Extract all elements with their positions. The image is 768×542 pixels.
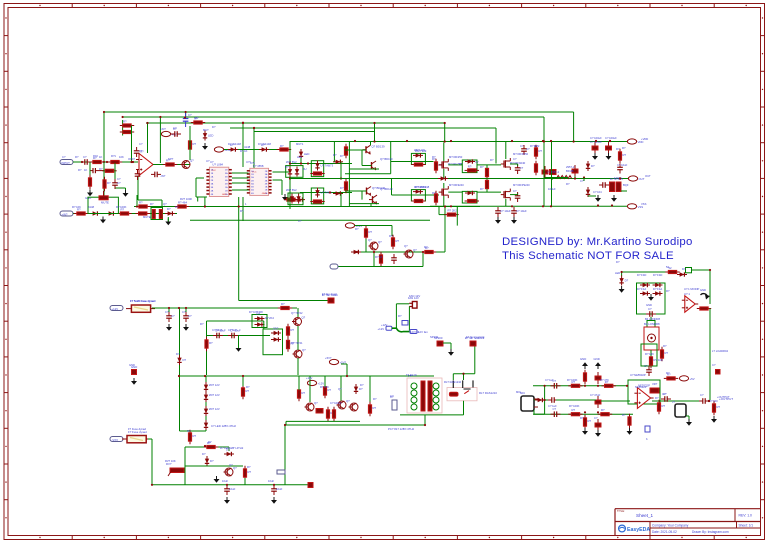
svg-text:Q?: Q?	[413, 248, 417, 252]
wire gate link m1	[438, 164, 440, 166]
mute block M1	[151, 208, 163, 220]
wire smps v298	[298, 376, 300, 390]
box loop opamp	[628, 380, 660, 404]
vbe box lower	[311, 188, 323, 204]
resistor R3	[88, 175, 91, 189]
resistor R15	[434, 159, 442, 173]
resistor R38 smps	[368, 402, 376, 416]
wire mid row right2	[601, 400, 630, 402]
wire below ic h3	[190, 219, 430, 221]
diode D27 snub	[465, 159, 475, 163]
svg-text:D? F4D: D? F4D	[653, 273, 662, 277]
svg-text:R?1: R?1	[111, 154, 116, 158]
capacitor CE2	[606, 142, 612, 154]
wire c9 stub	[574, 176, 576, 179]
wire q34 ladder2	[362, 165, 372, 167]
svg-text:WR? kit9: WR? kit9	[414, 148, 425, 152]
node input junction A	[103, 161, 105, 163]
wire v334	[333, 142, 335, 162]
svg-text:EasyEDA: EasyEDA	[627, 527, 650, 533]
svg-text:C?: C?	[644, 364, 648, 368]
resistor R9 rail1	[136, 201, 150, 209]
zener ZD6	[204, 392, 208, 402]
resistor R64 mid	[102, 169, 116, 172]
svg-text:LED: LED	[297, 155, 302, 159]
capacitor C32 below opamp	[135, 170, 141, 180]
svg-text:R?: R?	[717, 405, 721, 409]
svg-text:Q?: Q?	[163, 202, 167, 206]
snubber box lower	[411, 190, 425, 201]
flag fan Asato	[322, 293, 338, 303]
node input junction B	[130, 161, 132, 163]
resistor R20 gate	[485, 177, 488, 191]
wire c7 up	[517, 164, 519, 166]
transistor Q13 sub	[292, 316, 306, 326]
svg-text:C? 1uF: C? 1uF	[228, 328, 237, 332]
net GND flag mid	[214, 147, 232, 152]
capacitor C4 top	[171, 127, 181, 137]
capacitor C20 smps blue	[390, 395, 397, 410]
diode LED1	[203, 131, 214, 141]
svg-text:C? 100uF: C? 100uF	[590, 136, 602, 140]
svg-text:+12V: +12V	[112, 307, 119, 311]
connector J2	[675, 404, 686, 417]
wire q56 ladder	[361, 191, 363, 200]
ground G13	[183, 324, 189, 331]
resistor R51	[657, 400, 665, 414]
svg-text:R?: R?	[655, 396, 659, 400]
resistor R31 sub	[286, 337, 294, 351]
wire low r34 v	[189, 431, 191, 433]
capacitor C26	[551, 379, 561, 389]
ground GS1 signal	[701, 294, 711, 300]
capacitor C8	[515, 192, 521, 202]
diode D13 low	[224, 448, 234, 457]
zener ZD5	[204, 382, 208, 392]
svg-text:C?: C?	[662, 392, 666, 396]
capacitor C31 mid	[548, 397, 558, 403]
svg-text:MUT: MUT	[203, 128, 209, 132]
resistor R7	[74, 208, 88, 216]
svg-text:Q?: Q?	[314, 401, 318, 405]
svg-text:Date: 2021-05-02: Date: 2021-05-02	[652, 530, 677, 534]
capacitor C27	[551, 407, 561, 417]
wire bus3 drop x375	[374, 123, 376, 142]
diode D26 snub	[413, 185, 430, 194]
ground G3	[123, 190, 129, 197]
svg-text:ZD? 12V: ZD? 12V	[209, 393, 220, 397]
diode D2	[259, 143, 269, 152]
svg-text:M? IRF250: M? IRF250	[449, 155, 463, 159]
diode D23 mute	[165, 207, 175, 216]
svg-text:R?: R?	[666, 371, 670, 375]
node relay j	[462, 373, 464, 375]
svg-text:T? EE19: T? EE19	[406, 373, 417, 377]
svg-text:L? 4557-2: L? 4557-2	[547, 170, 560, 174]
box loop rt	[641, 344, 657, 366]
wire rt v right2	[709, 309, 711, 401]
svg-text:R?: R?	[665, 351, 669, 355]
svg-text:D?: D?	[359, 387, 363, 391]
wire smps v310	[309, 376, 311, 402]
ground G15 sub	[236, 345, 242, 352]
svg-text:R?: R?	[195, 116, 199, 120]
svg-text:Q?: Q?	[404, 244, 408, 248]
transistor Q4	[368, 161, 376, 170]
resistor R62 q1	[188, 138, 196, 152]
svg-text:C? 10uF: C? 10uF	[500, 209, 511, 213]
port -VXX supply	[110, 437, 123, 442]
svg-text:BDUB: BDUB	[566, 169, 574, 173]
diode D12 low	[205, 456, 214, 466]
capacitor C13 mid	[391, 254, 397, 264]
capacitor C11	[617, 164, 623, 174]
svg-text:R?: R?	[208, 440, 212, 444]
resistor R45	[602, 380, 616, 388]
svg-text:D? 1N5408: D? 1N5408	[249, 310, 263, 314]
wire fb right v	[131, 126, 133, 163]
capacitor C22 rt	[646, 307, 656, 317]
transistor Q18 smps	[305, 401, 319, 411]
svg-text:R?: R?	[432, 191, 436, 195]
diode D15 rt	[619, 276, 628, 286]
ground G28	[711, 416, 717, 423]
resistor R21	[534, 145, 542, 159]
wire mic elbow2	[534, 413, 545, 415]
wire sub v x298c	[297, 358, 299, 375]
wire row y177	[430, 178, 629, 180]
wire relay v474	[474, 345, 476, 374]
svg-text:C?: C?	[594, 416, 598, 420]
wire relay bot v	[463, 401, 465, 415]
op-amp U3 TL072 DIP	[247, 164, 272, 196]
net +5V rt	[679, 376, 694, 381]
transistor Q17 smps	[349, 403, 359, 411]
wire j2 gnd	[686, 415, 689, 417]
flag fan heatsink	[465, 336, 485, 346]
ground G11	[611, 195, 617, 202]
svg-text:C?: C?	[648, 307, 652, 311]
resistor R11	[344, 144, 347, 158]
op-amp U1 NE5532	[136, 150, 156, 176]
wire vert x355	[348, 142, 350, 207]
wire stacked r loop	[122, 120, 124, 136]
capacitor C19 rail	[271, 485, 282, 495]
wire ic2 right v	[281, 180, 283, 195]
wire mid v x423	[422, 252, 424, 267]
node rail1 j3	[136, 205, 138, 207]
svg-text:C?: C?	[712, 363, 716, 367]
svg-text:C? 104: C? 104	[593, 190, 602, 194]
svg-text:Q? TIP42: Q? TIP42	[291, 311, 303, 315]
resistor R30 sub	[286, 324, 294, 338]
svg-text:C? 47uF: C? 47uF	[590, 393, 601, 397]
svg-text:MUTE: MUTE	[143, 215, 151, 219]
wire vert x390	[390, 142, 392, 174]
transistor Q14 sub	[293, 348, 307, 358]
svg-text:LED: LED	[304, 152, 309, 156]
zener ZD7	[204, 406, 208, 416]
resistor R43 rt	[664, 372, 678, 380]
wire row upper y163	[290, 163, 352, 165]
wire top bus 4	[230, 127, 496, 129]
wire sub jog	[263, 321, 265, 329]
svg-text:B4 LONDR8: B4 LONDR8	[644, 322, 660, 326]
resistor R18 snub	[465, 199, 479, 202]
wire row y141	[290, 141, 627, 143]
svg-text:-VXX: -VXX	[112, 438, 119, 442]
transistor Q12 mid	[404, 248, 418, 258]
svg-text:MUTE: MUTE	[101, 201, 109, 205]
svg-text:Sheet: 1/1: Sheet: 1/1	[739, 523, 754, 527]
wire smps bot v	[424, 415, 426, 425]
capacitor C30 blue top	[183, 112, 192, 127]
svg-text:Q?: Q?	[368, 238, 372, 242]
net +5V flag	[329, 359, 346, 364]
connector small blue	[277, 470, 285, 474]
svg-text:1K: 1K	[99, 155, 102, 159]
wire gate row upper	[391, 161, 434, 163]
wire r19 dn	[486, 177, 488, 179]
resistor R42 rt	[649, 354, 663, 368]
transformer T2 smps	[407, 374, 442, 413]
wire rt top h2	[692, 269, 711, 271]
svg-text:R?: R?	[468, 164, 472, 168]
resistor R47	[583, 415, 591, 429]
svg-text:C?: C?	[171, 314, 175, 318]
wire mid vert x445	[444, 207, 446, 253]
svg-text:C? 100uF: C? 100uF	[330, 401, 342, 405]
svg-text:F? Fuse dynad: F? Fuse dynad	[128, 427, 146, 431]
svg-text:Q?: Q?	[190, 159, 194, 163]
svg-text:R?: R?	[240, 209, 244, 213]
svg-text:R?: R?	[75, 155, 79, 159]
diode D19 col	[586, 161, 595, 171]
wire r20 up	[486, 179, 488, 181]
zener ZD4	[296, 194, 300, 204]
wire ic link2	[232, 182, 249, 184]
wire v457	[456, 207, 458, 226]
svg-text:Q? BD139: Q? BD139	[380, 157, 393, 161]
wire main rail 375	[180, 375, 435, 377]
resistor R52	[712, 401, 720, 415]
wire out col v	[583, 178, 585, 182]
svg-text:D?: D?	[360, 383, 364, 387]
wire mos link l	[448, 191, 462, 193]
ground G4 led	[202, 143, 208, 150]
diode D9	[177, 355, 186, 365]
wire top bus 1	[104, 111, 574, 113]
ground G6 mute	[165, 219, 171, 226]
wire fan swoosh	[392, 328, 410, 332]
svg-text:R?: R?	[622, 146, 626, 150]
wire horiz y131b	[254, 131, 375, 133]
wire mic mid2	[545, 399, 549, 401]
terminal T1	[308, 483, 313, 488]
wire 5v drop	[341, 363, 347, 365]
ground G32	[511, 217, 517, 224]
svg-text:R?: R?	[281, 302, 285, 306]
capacitor C28	[661, 392, 671, 402]
svg-text:LED: LED	[615, 271, 620, 275]
svg-text:C?: C?	[513, 157, 517, 161]
ground G23	[595, 362, 601, 369]
wire ic1 drop a	[197, 197, 199, 202]
capacitor CE6	[595, 396, 601, 408]
ground G8	[592, 153, 598, 160]
svg-text:R?: R?	[193, 142, 197, 146]
svg-text:OP07: OP07	[128, 157, 135, 161]
zener ZD3	[290, 194, 294, 204]
svg-text:U?.1 MODIP: U?.1 MODIP	[684, 287, 699, 291]
transistor Q5	[363, 186, 386, 196]
wire mos drain1b	[443, 169, 445, 179]
zener ZD1	[288, 167, 292, 177]
svg-text:10uF: 10uF	[229, 487, 236, 491]
wire rt v left	[621, 272, 623, 276]
trimmer RV2	[166, 462, 184, 476]
wire q34 ladder	[361, 150, 363, 166]
wire v137	[136, 195, 138, 207]
inductor L1	[557, 176, 572, 179]
wire bus3 drop x444	[444, 123, 446, 142]
svg-text:C? 10uF: C? 10uF	[212, 328, 223, 332]
resistor R35 low	[204, 441, 218, 449]
svg-text:MIC: MIC	[516, 390, 521, 394]
capacitor C36 parallel	[90, 162, 104, 173]
diode D25 sub	[271, 337, 281, 341]
wire led2 drop	[300, 158, 302, 164]
svg-text:D? LED12BY-4TH2: D? LED12BY-4TH2	[220, 446, 244, 450]
net OUT	[628, 176, 644, 181]
resistor R10 rail1	[175, 201, 189, 209]
svg-text:4148: 4148	[244, 145, 251, 149]
node mic j1	[544, 385, 546, 387]
svg-text:D? 150TU: D? 150TU	[414, 185, 426, 189]
svg-text:R?: R?	[78, 168, 82, 172]
wire opamp below h	[138, 199, 162, 201]
svg-text:D?: D?	[340, 186, 344, 190]
ground G19 rt	[619, 286, 625, 293]
svg-text:R1K: R1K	[93, 154, 98, 158]
port IN2	[60, 211, 73, 216]
svg-text:GND: GND	[222, 194, 227, 196]
wire gate row lower	[392, 194, 440, 196]
wire input row	[73, 161, 138, 163]
wire mic elbow1	[533, 410, 535, 414]
svg-text:R?: R?	[187, 429, 191, 433]
diode D22	[295, 197, 305, 201]
wire y168 seg	[461, 164, 463, 166]
wire ic2 right2	[273, 179, 283, 181]
resistor R60 gnd	[583, 370, 586, 384]
resistor R8	[117, 208, 131, 216]
capacitor C9 out	[572, 165, 578, 177]
wire opamp out	[153, 164, 190, 166]
svg-text:GND: GND	[700, 288, 706, 292]
resistor R13 snub	[411, 163, 425, 166]
ground flag GF1	[131, 365, 137, 375]
svg-text:R?: R?	[389, 234, 393, 238]
wire fan top h	[396, 303, 409, 305]
svg-text:52: 52	[666, 265, 669, 269]
ground G1	[87, 190, 93, 197]
svg-text:R? 100K: R? 100K	[567, 378, 578, 382]
wire relay bot h	[440, 414, 464, 416]
svg-text:R? 464: R? 464	[178, 201, 187, 205]
ground G5	[100, 217, 106, 224]
capacitor C15 in	[183, 312, 192, 322]
capacitor C3 over opamp	[134, 147, 143, 157]
svg-text:BQF: BQF	[623, 183, 629, 187]
svg-text:U? TAB73: U? TAB73	[321, 164, 334, 168]
resistor R26 mid	[379, 252, 382, 266]
svg-text:REV: 1.0: REV: 1.0	[739, 514, 753, 518]
wire ic1 bot	[196, 196, 207, 198]
wire cap drop2	[185, 308, 187, 312]
svg-text:RV? 10K: RV? 10K	[165, 459, 176, 463]
svg-text:MUT1: MUT1	[296, 142, 304, 146]
fuse F1	[126, 299, 156, 312]
svg-text:Q?: Q?	[229, 463, 233, 467]
node j vdd1	[595, 140, 597, 142]
wire mid row right	[556, 399, 596, 401]
svg-text:R? 2K2: R? 2K2	[265, 316, 274, 320]
svg-text:R?: R?	[291, 328, 295, 332]
resistor R63 below	[444, 209, 458, 217]
wire below ic v2	[242, 197, 244, 221]
node rail1 j2	[204, 205, 206, 207]
op-amp U6 NE5532P	[634, 384, 653, 409]
wire bus1 drop right	[573, 112, 575, 142]
wire R1 drop	[89, 162, 91, 176]
svg-text:U?: U?	[206, 159, 210, 163]
svg-text:M? IRF9240: M? IRF9240	[449, 183, 464, 187]
ground G29 rail	[214, 476, 220, 483]
capacitor CE3 left	[542, 166, 548, 178]
resistor R25 mid	[364, 226, 372, 240]
svg-text:R?: R?	[398, 314, 402, 318]
svg-text:ZD?: ZD?	[273, 327, 279, 331]
svg-text:+5V: +5V	[690, 377, 695, 381]
node mic j2	[544, 399, 546, 401]
svg-text:R?: R?	[616, 147, 620, 151]
wire opamp pwr v1	[147, 123, 149, 153]
svg-text:C?: C?	[580, 179, 584, 183]
wire mid flag drop	[391, 226, 393, 237]
svg-text:R?: R?	[99, 167, 103, 171]
svg-text:C?: C?	[173, 126, 177, 130]
svg-text:D?: D?	[682, 267, 686, 271]
diode D16 rt	[677, 272, 687, 276]
wire low v243b	[244, 478, 246, 485]
net +12V mid	[345, 223, 362, 228]
svg-text:D?: D?	[212, 125, 216, 129]
svg-text:DESIGNED by: Mr.Kartino Surod: DESIGNED by: Mr.Kartino Surodipo	[502, 236, 693, 248]
node j vdd2	[609, 140, 611, 142]
snubber box lower2	[462, 191, 477, 203]
svg-text:Drawn By: Instagram.com: Drawn By: Instagram.com	[692, 530, 729, 534]
wire vert x391b	[391, 179, 393, 196]
svg-text:C?: C?	[62, 155, 66, 159]
capacitor C14 in	[166, 312, 175, 322]
svg-text:E? fan heatsink: E? fan heatsink	[466, 335, 485, 339]
diode D3	[90, 211, 100, 215]
svg-text:D?: D?	[167, 207, 171, 211]
op-amp U4 rt	[682, 292, 698, 312]
wire cap drop1	[168, 308, 170, 312]
transistor Q6	[369, 195, 377, 204]
